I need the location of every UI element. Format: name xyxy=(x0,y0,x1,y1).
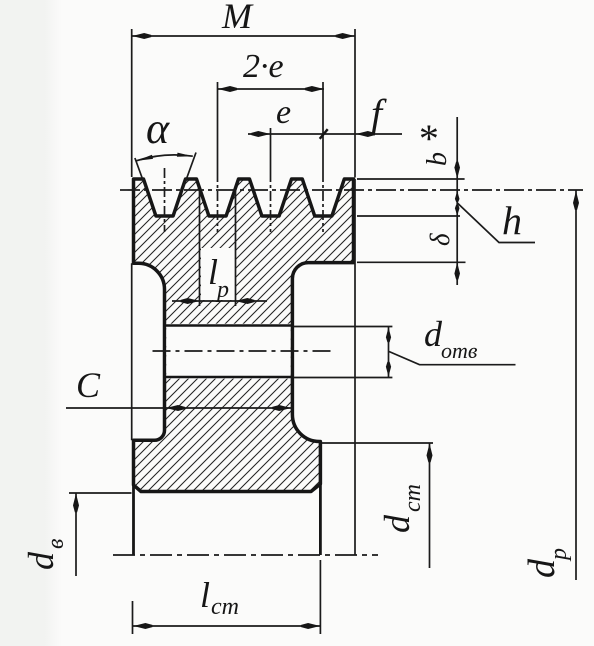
svg-text:ст: ст xyxy=(211,594,239,620)
svg-text:M: M xyxy=(221,0,254,36)
C arrows inside outward xyxy=(166,405,185,411)
d_st extension: hub top to dim line xyxy=(322,442,433,444)
dim d_st xyxy=(429,443,431,568)
svg-text:p: p xyxy=(215,277,229,303)
svg-text:d: d xyxy=(21,551,61,570)
dim l_st xyxy=(133,625,321,627)
dim d_p xyxy=(575,191,577,581)
arrows xyxy=(73,33,579,629)
svg-text:отв: отв xyxy=(441,338,478,363)
slash at 323.5 crossing xyxy=(320,129,328,139)
M arrows xyxy=(132,33,151,39)
pitch line xyxy=(120,189,583,191)
svg-text:в: в xyxy=(43,539,69,549)
thin construction / extension lines xyxy=(69,29,466,634)
svg-text:*: * xyxy=(417,116,437,161)
main axis xyxy=(113,554,378,556)
dim C xyxy=(66,407,292,409)
l_p extension lines xyxy=(199,191,201,306)
hub faces continuing below bore to axis xyxy=(132,485,135,555)
d_otv arrows short xyxy=(386,327,391,342)
dim l_p xyxy=(172,300,267,302)
alpha angle construction xyxy=(135,153,196,189)
dim d_otv xyxy=(388,327,390,378)
svg-text:e: e xyxy=(276,94,291,131)
hub right face extension below axis for l_st xyxy=(319,560,321,634)
leader h xyxy=(457,203,535,243)
groove centerlines xyxy=(164,168,166,232)
l_st arrows inside outward xyxy=(133,623,152,629)
e left arrow outside xyxy=(251,131,270,137)
d_otv hole axis xyxy=(153,350,335,352)
svg-text:C: C xyxy=(76,365,101,405)
left vertical x=131.7: M ext + recess edge + lst ext xyxy=(131,29,133,177)
svg-text:2·e: 2·e xyxy=(243,48,284,85)
f right arrow outside xyxy=(356,131,375,137)
dim d_v xyxy=(75,493,77,576)
centerlines dash-dot xyxy=(113,168,583,555)
text halo over hatch (l_p) xyxy=(201,248,236,300)
d_v arrow up xyxy=(73,493,79,512)
d_v extension: bore line to left xyxy=(69,492,132,494)
svg-text:ст: ст xyxy=(400,484,426,512)
dim 2e xyxy=(218,88,325,90)
svg-text:δ: δ xyxy=(425,233,455,246)
pulley section body (rim + web + hub), hatched xyxy=(134,179,354,492)
b* arrows outside xyxy=(454,162,460,179)
svg-text:α: α xyxy=(146,104,170,153)
delta arrows outside xyxy=(455,205,460,216)
svg-text:d: d xyxy=(377,514,417,533)
leader d_otv xyxy=(389,352,516,365)
d_otv hole edge extensions xyxy=(294,326,392,328)
svg-text:d: d xyxy=(521,558,563,578)
d_st arrow up xyxy=(427,443,433,462)
dim b* / delta vertical xyxy=(456,117,458,285)
svg-text:h: h xyxy=(502,198,522,243)
b*/delta horizontal extensions xyxy=(357,178,465,180)
d_p arrow up xyxy=(573,191,579,210)
dimension lines xyxy=(66,36,576,626)
svg-text:p: p xyxy=(546,548,572,562)
dim M xyxy=(132,35,355,37)
2e arrows xyxy=(218,86,237,92)
groove center extensions from above xyxy=(217,82,219,172)
right vertical x=355: M ext + rim right silhouette down to axis xyxy=(354,29,356,178)
dim e / f xyxy=(248,133,402,135)
svg-text:l: l xyxy=(200,575,210,615)
hole d_otv in web (white band) xyxy=(165,324,293,379)
l_p arrows outside converging xyxy=(181,298,200,304)
